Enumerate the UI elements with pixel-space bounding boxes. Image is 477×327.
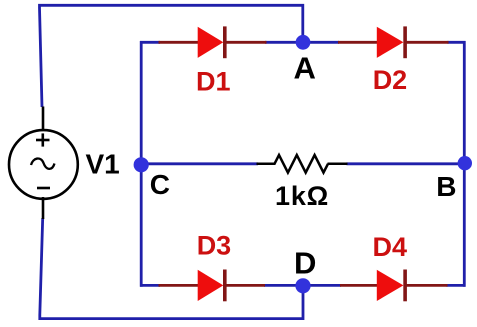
resistor right lead black [328, 163, 348, 166]
wire top outer blue: V1 plus terminal up and across to node A [40, 5, 303, 107]
diode D1 anode lead [159, 41, 199, 44]
diode D2 triangle [377, 27, 404, 58]
svg-text:C: C [150, 169, 170, 200]
wire bottom rail blue middle segment through node D [264, 284, 341, 287]
wire left inner vertical blue (node C branch) [140, 41, 143, 287]
diode D4 triangle [377, 270, 404, 301]
wire bottom rail blue right segment [447, 284, 466, 287]
svg-text:D4: D4 [373, 232, 408, 262]
svg-text:V1: V1 [86, 149, 120, 180]
diode D4 cathode lead [406, 284, 448, 287]
svg-text:D3: D3 [197, 231, 232, 261]
diode D2 cathode bar [403, 26, 407, 58]
svg-text:D: D [294, 246, 316, 281]
wire middle rail blue left segment from node C [140, 162, 258, 165]
svg-text:B: B [436, 171, 456, 202]
diode D2 anode lead [338, 41, 378, 44]
voltage source V1 sine symbol [31, 158, 55, 168]
diode D3 cathode lead [226, 284, 265, 287]
wire right inner vertical blue (node B branch) [463, 41, 466, 287]
diode D4 anode lead [340, 284, 378, 287]
diode D3 anode lead [159, 284, 199, 287]
svg-text:D1: D1 [196, 66, 231, 96]
wire top rail blue right segment [448, 41, 466, 44]
voltage source V1 plus sign [36, 133, 50, 146]
voltage source V1 minus sign [37, 187, 50, 190]
node B dot [458, 156, 472, 170]
wire middle rail blue right segment to node B [347, 162, 466, 165]
node C dot [134, 157, 149, 172]
wire V1 top black stub [42, 107, 45, 132]
diode D1 cathode lead [226, 41, 267, 44]
diode D2 cathode lead [406, 41, 449, 44]
resistor left lead black [257, 163, 276, 166]
node D dot [295, 278, 310, 293]
wire top rail blue left segment [140, 41, 160, 44]
voltage source V1 circle [9, 130, 78, 199]
diode D3 triangle [198, 270, 224, 301]
diode D3 cathode bar [223, 270, 227, 302]
wire V1 bottom black stub [42, 197, 45, 219]
diode D1 triangle [198, 27, 224, 58]
wire bottom outer blue: V1 minus terminal down and across to node D [40, 218, 303, 319]
node A dot [296, 35, 311, 50]
wire bottom rail blue left segment [140, 284, 160, 287]
svg-text:1kΩ: 1kΩ [275, 181, 329, 211]
svg-text:D2: D2 [373, 65, 408, 95]
wire top rail blue middle segment through node A [265, 41, 339, 44]
diode D4 cathode bar [403, 270, 407, 302]
resistor zigzag [275, 155, 329, 173]
svg-text:A: A [294, 50, 316, 85]
diode D1 cathode bar [223, 26, 227, 58]
